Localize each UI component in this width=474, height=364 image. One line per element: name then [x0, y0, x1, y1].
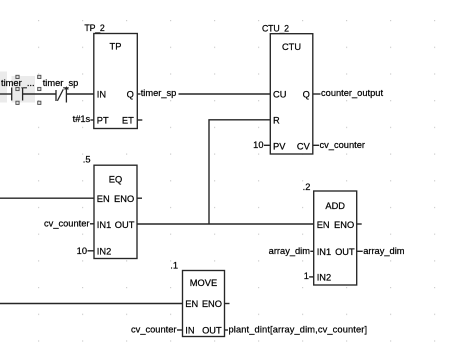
- svg-text:IN2: IN2: [317, 272, 331, 282]
- tick ADD.ENO: [357, 223, 362, 225]
- svg-text:TP: TP: [110, 42, 122, 52]
- svg-text:.5: .5: [83, 155, 91, 165]
- svg-text:cv_counter: cv_counter: [320, 140, 365, 150]
- output counter_output on CTU.Q: [313, 88, 384, 98]
- svg-text:cv_counter: cv_counter: [44, 219, 89, 229]
- svg-text:10: 10: [253, 140, 263, 150]
- output array_dim on ADD.OUT: [357, 246, 405, 256]
- svg-text:plant_dint[array_dim,cv_counte: plant_dint[array_dim,cv_counter]: [229, 324, 368, 334]
- svg-text:IN2: IN2: [97, 247, 111, 257]
- wire contact timer_sp to TP IN: [66, 93, 93, 95]
- block label .5: [83, 155, 91, 165]
- svg-text:TP_2: TP_2: [84, 23, 105, 33]
- wire left rail to EQ.EN: [0, 197, 94, 199]
- svg-text:IN1: IN1: [317, 247, 331, 257]
- wire contact timer_... to contact timer_sp: [23, 93, 56, 95]
- input array_dim on ADD.IN1: [269, 246, 314, 256]
- svg-text:IN: IN: [97, 90, 106, 100]
- svg-text:OUT: OUT: [202, 326, 222, 336]
- svg-text:.1: .1: [170, 261, 178, 271]
- svg-text:OUT: OUT: [115, 220, 135, 230]
- svg-text:ET: ET: [122, 116, 134, 126]
- counter block CTU (CTU_2): [270, 34, 313, 154]
- wire EQ.OUT to ADD.EN: [137, 223, 314, 225]
- svg-text:Q: Q: [303, 90, 310, 100]
- wire left rail to MOVE.EN: [0, 303, 183, 305]
- block label .1: [170, 261, 178, 271]
- svg-text:ADD: ADD: [325, 201, 345, 211]
- block label .2: [303, 182, 311, 192]
- contact timer_sp (NC contact with edge arrow): [43, 78, 79, 103]
- svg-text:PV: PV: [273, 141, 286, 151]
- output cv_counter on CTU.CV: [313, 140, 365, 150]
- svg-text:IN1: IN1: [97, 220, 111, 230]
- svg-text:PT: PT: [97, 116, 109, 126]
- svg-text:cv_counter: cv_counter: [131, 324, 176, 334]
- literal 10 on CTU.PV: [253, 140, 270, 150]
- selection handles: [16, 75, 41, 104]
- svg-text:.2: .2: [303, 182, 311, 192]
- svg-text:array_dim: array_dim: [269, 246, 311, 256]
- svg-text:EN: EN: [185, 299, 198, 309]
- svg-text:Q: Q: [127, 90, 134, 100]
- svg-text:ENO: ENO: [114, 194, 134, 204]
- svg-text:timer_sp: timer_sp: [141, 88, 177, 98]
- literal 1 on ADD.IN2: [304, 271, 314, 281]
- svg-text:EN: EN: [97, 194, 110, 204]
- literal t#1s on TP.PT: [73, 114, 94, 124]
- contact timer_... (NO contact, selected): [1, 78, 35, 101]
- svg-text:ENO: ENO: [202, 299, 222, 309]
- svg-text:timer_sp: timer_sp: [43, 78, 79, 88]
- svg-text:CTU_2: CTU_2: [262, 24, 289, 34]
- move block MOVE (.1): [183, 271, 225, 337]
- svg-text:10: 10: [77, 246, 87, 256]
- svg-text:EN: EN: [317, 220, 330, 230]
- wire EQ.OUT up to CTU.R: [209, 120, 270, 224]
- tick EQ.ENO: [137, 197, 142, 199]
- svg-text:ENO: ENO: [334, 220, 354, 230]
- svg-text:counter_output: counter_output: [321, 88, 383, 98]
- svg-text:OUT: OUT: [335, 247, 355, 257]
- svg-text:EQ: EQ: [109, 175, 122, 185]
- svg-text:array_dim: array_dim: [363, 246, 405, 256]
- adder block ADD (.2): [314, 191, 357, 285]
- input cv_counter on EQ.IN1: [44, 219, 94, 229]
- comparator block EQ (.5): [94, 165, 137, 258]
- svg-text:MOVE: MOVE: [190, 278, 217, 288]
- output plant_dint[array_dim,cv_counter] on MOVE.OUT: [225, 324, 368, 334]
- svg-text:CTU: CTU: [282, 42, 301, 52]
- wire TP.Q to CTU.CU with label timer_sp: [137, 88, 270, 98]
- svg-text:R: R: [273, 115, 280, 125]
- svg-text:timer_...: timer_...: [1, 78, 35, 88]
- svg-text:1: 1: [304, 271, 309, 281]
- block label CTU_2: [262, 24, 289, 34]
- block label TP_2: [84, 23, 105, 33]
- literal 10 on EQ.IN2: [77, 246, 94, 256]
- selection highlight of contact timer_...: [0, 72, 35, 103]
- timer block TP (TP_2): [94, 34, 138, 129]
- svg-text:IN: IN: [185, 326, 194, 336]
- tick TP.ET: [137, 119, 142, 121]
- wire left rail to contact timer_...: [0, 93, 12, 95]
- svg-text:CV: CV: [297, 141, 311, 151]
- svg-text:CU: CU: [273, 90, 286, 100]
- input cv_counter on MOVE.IN: [131, 324, 182, 334]
- svg-text:t#1s: t#1s: [73, 114, 91, 124]
- tick MOVE.ENO: [225, 303, 230, 305]
